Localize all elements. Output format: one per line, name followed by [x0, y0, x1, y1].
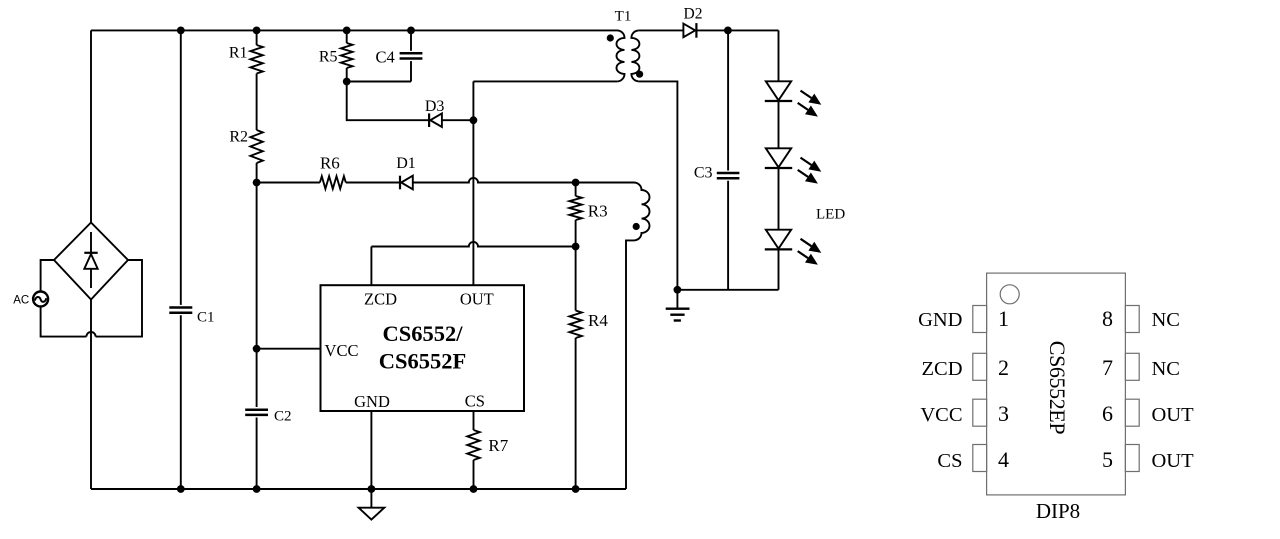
pin label OUT	[460, 290, 494, 309]
DIP8 pin number 5	[1102, 447, 1113, 472]
bridge diode	[84, 232, 97, 288]
wire AC loop bottom-left	[41, 307, 87, 337]
wire C3 bottom	[727, 181, 729, 290]
svg-text:NC: NC	[1152, 309, 1180, 331]
wire VCC	[257, 348, 321, 350]
resistor R2	[250, 130, 262, 163]
wire C1 bottom	[180, 315, 182, 489]
svg-text:2: 2	[998, 355, 1009, 380]
DIP8 pin number 2	[998, 355, 1009, 380]
DIP8 label GND	[918, 309, 962, 331]
label DIP8	[1036, 499, 1080, 523]
label R3	[588, 201, 608, 220]
pin label VCC	[325, 341, 359, 360]
earth ground symbol	[666, 290, 690, 321]
LED D6 arrows	[798, 239, 822, 265]
wire C2 bottom	[256, 418, 258, 490]
wire ZCD vertical	[370, 247, 372, 286]
svg-text:CS6552/: CS6552/	[382, 321, 463, 346]
DIP8 pin 1 lead	[973, 306, 987, 333]
LED D5 arrows	[798, 158, 822, 184]
wire to D3	[347, 82, 429, 121]
DIP8 pin-1 mark	[1000, 285, 1019, 304]
label C2	[274, 409, 292, 425]
T1 primary polarity dot	[607, 34, 614, 41]
svg-text:1: 1	[998, 306, 1009, 331]
node R2/R6	[253, 179, 261, 187]
DIP8 body	[987, 273, 1126, 495]
svg-text:8: 8	[1102, 306, 1113, 331]
label D1	[396, 155, 416, 172]
label AC	[13, 295, 29, 307]
label LED	[816, 206, 845, 222]
diode D3	[429, 113, 442, 127]
wire left vertical	[90, 30, 92, 222]
aux winding polarity dot	[633, 223, 640, 230]
wire C4 top	[410, 30, 412, 50]
resistor R4	[569, 311, 581, 339]
node R3/R4	[572, 243, 580, 251]
wire R4 top	[575, 247, 577, 311]
node R5/C4	[343, 78, 351, 86]
svg-text:7: 7	[1102, 355, 1113, 380]
DIP8 pin number 8	[1102, 306, 1113, 331]
svg-text:ZCD: ZCD	[922, 358, 963, 380]
wire top rail	[91, 29, 617, 31]
svg-text:D2: D2	[684, 6, 703, 23]
wire OUT to T1 primary	[473, 80, 617, 82]
svg-text:NC: NC	[1152, 358, 1180, 380]
svg-text:R5: R5	[319, 49, 338, 66]
wire bottom rail	[91, 488, 626, 490]
svg-text:R6: R6	[320, 154, 340, 173]
DIP8 pin 4 lead	[973, 445, 987, 472]
op-amp U1 CS6552 box	[321, 285, 525, 411]
svg-text:R3: R3	[588, 201, 608, 220]
wire D1 east with hop	[413, 178, 576, 183]
label C3	[694, 165, 713, 182]
AC source	[33, 292, 48, 307]
wire D2 east	[697, 29, 779, 31]
node rail/GND-pin	[368, 485, 376, 493]
node rail/C1	[177, 485, 185, 493]
label R1	[229, 45, 248, 62]
diode D1	[400, 176, 413, 190]
label R5	[319, 49, 338, 66]
wire LED1-LED2	[778, 102, 780, 149]
wire R3 bottom	[575, 220, 577, 247]
svg-text:VCC: VCC	[325, 341, 359, 360]
svg-text:C2: C2	[274, 409, 292, 425]
wire AC loop bottom-right	[96, 260, 142, 337]
node rail/R4	[572, 485, 580, 493]
resistor R3	[569, 196, 581, 220]
wire C3 top	[727, 30, 729, 170]
wire R5 top	[346, 30, 348, 43]
node rail/C2	[253, 485, 261, 493]
svg-text:OUT: OUT	[460, 290, 494, 309]
svg-text:ZCD: ZCD	[364, 290, 397, 309]
svg-text:GND: GND	[354, 392, 390, 411]
wire GND pin	[370, 411, 372, 489]
label CS6552F	[379, 348, 467, 373]
bridge rectifier BR1	[54, 223, 128, 300]
DIP8 pin 5 lead	[1125, 445, 1139, 472]
wire to aux winding	[576, 182, 634, 184]
svg-text:CS: CS	[937, 450, 962, 472]
label C4	[376, 47, 395, 66]
DIP8 pin number 4	[998, 447, 1009, 472]
DIP8 pin 8 lead	[1125, 306, 1139, 333]
wire ground node to LED	[677, 289, 778, 291]
label CS6552/	[382, 321, 463, 346]
aux winding	[626, 183, 650, 490]
DIP8 pin number 3	[998, 401, 1009, 426]
wire CS pin	[473, 411, 475, 430]
capacitor C3	[717, 173, 740, 178]
LED D4	[765, 81, 792, 101]
svg-text:T1: T1	[615, 9, 632, 25]
node top-rail/C1	[177, 27, 185, 35]
DIP8 pin number 1	[998, 306, 1009, 331]
svg-text:3: 3	[998, 401, 1009, 426]
DIP8 label ZCD	[922, 358, 963, 380]
DIP8 label pin5 OUT	[1152, 450, 1195, 472]
pin label CS	[465, 392, 485, 411]
DIP8 pin 2 lead	[973, 353, 987, 380]
node VCC branch	[253, 345, 261, 353]
svg-text:LED: LED	[816, 206, 845, 222]
svg-text:4: 4	[998, 447, 1009, 472]
label R2	[229, 129, 248, 146]
svg-text:R4: R4	[588, 311, 608, 330]
label R7	[488, 436, 508, 455]
DIP8 pin 6 lead	[1125, 399, 1139, 426]
svg-text:OUT: OUT	[1152, 404, 1195, 426]
wire LED bottom	[778, 250, 780, 290]
wire ground stub	[370, 489, 372, 508]
node ground	[674, 286, 682, 294]
wire R3 top	[575, 183, 577, 197]
svg-text:D1: D1	[396, 155, 416, 172]
pin label GND	[354, 392, 390, 411]
svg-text:D3: D3	[425, 98, 445, 115]
DIP8 label pin6 OUT	[1152, 404, 1195, 426]
DIP8 part name CS6552EP	[1045, 341, 1070, 435]
wire C1 top	[180, 30, 182, 305]
capacitor C4	[400, 53, 423, 58]
DIP8 label CS	[937, 450, 962, 472]
svg-text:VCC: VCC	[920, 404, 962, 426]
wire R5 bottom	[346, 68, 348, 82]
svg-text:C3: C3	[694, 165, 713, 182]
svg-text:6: 6	[1102, 401, 1113, 426]
resistor R5	[341, 43, 353, 68]
node top-rail/R5	[343, 27, 351, 35]
transformer T1 primary	[617, 30, 625, 81]
DIP8 label pin7 NC	[1152, 358, 1180, 380]
wire T1 secondary return	[639, 81, 678, 289]
label D2	[684, 6, 703, 23]
svg-text:R1: R1	[229, 45, 248, 62]
svg-text:C4: C4	[376, 47, 395, 66]
capacitor C2	[245, 410, 268, 415]
DIP8 pin number 7	[1102, 355, 1113, 380]
wire R1 top	[256, 30, 258, 45]
wire hop over bridge output	[86, 332, 95, 337]
resistor R1	[250, 45, 262, 74]
wire R6-D1	[346, 182, 400, 184]
svg-text:CS6552EP: CS6552EP	[1045, 341, 1070, 435]
LED D5	[765, 148, 792, 168]
resistor R7	[467, 430, 479, 460]
wire C4 bottom	[410, 61, 412, 81]
wire LED top	[778, 30, 780, 81]
node D2/C3	[724, 27, 732, 35]
wire R4 bottom	[575, 338, 577, 489]
transformer T1 secondary	[631, 30, 639, 81]
svg-text:AC: AC	[13, 295, 29, 307]
wire bridge output	[90, 300, 92, 490]
wire ZCD to R3 with hop	[371, 242, 575, 247]
svg-text:OUT: OUT	[1152, 450, 1195, 472]
wire R7 bottom	[473, 460, 475, 489]
wire D3 to OUT line	[442, 119, 474, 121]
wire LED2-LED3	[778, 169, 780, 230]
wire R5-C4 join	[347, 81, 411, 83]
label T1	[615, 9, 632, 25]
svg-text:CS: CS	[465, 392, 485, 411]
wire T1 to D2	[639, 29, 684, 31]
svg-text:R7: R7	[488, 436, 508, 455]
wire R2-R6	[257, 182, 320, 184]
node D3/OUT	[470, 116, 478, 124]
LED D4 arrows	[798, 91, 822, 117]
svg-text:GND: GND	[918, 309, 962, 331]
label D3	[425, 98, 445, 115]
svg-text:R2: R2	[229, 129, 248, 146]
label R4	[588, 311, 608, 330]
diode D2	[683, 23, 696, 38]
label C1	[197, 310, 215, 326]
wire R2 down	[256, 163, 258, 407]
T1 secondary polarity dot	[636, 71, 643, 78]
node top-rail/C4	[407, 27, 415, 35]
wire R1-R2	[256, 74, 258, 131]
node R3 top	[572, 179, 580, 187]
DIP8 label pin8 NC	[1152, 309, 1180, 331]
DIP8 label VCC	[920, 404, 962, 426]
ground symbol (triangle)	[359, 508, 385, 520]
wire AC loop left	[41, 260, 54, 291]
capacitor C1	[169, 308, 192, 313]
svg-text:C1: C1	[197, 310, 215, 326]
LED D6	[765, 230, 792, 250]
DIP8 pin 3 lead	[973, 399, 987, 426]
DIP8 pin 7 lead	[1125, 353, 1139, 380]
pin label ZCD	[364, 290, 397, 309]
wire OUT vertical	[472, 81, 474, 285]
svg-text:CS6552F: CS6552F	[379, 348, 467, 373]
DIP8 pin number 6	[1102, 401, 1113, 426]
node rail/R7	[470, 485, 478, 493]
label R6	[320, 154, 340, 173]
resistor R6	[320, 176, 346, 189]
svg-text:DIP8: DIP8	[1036, 499, 1080, 523]
node top-rail/R1	[253, 27, 261, 35]
svg-text:5: 5	[1102, 447, 1113, 472]
